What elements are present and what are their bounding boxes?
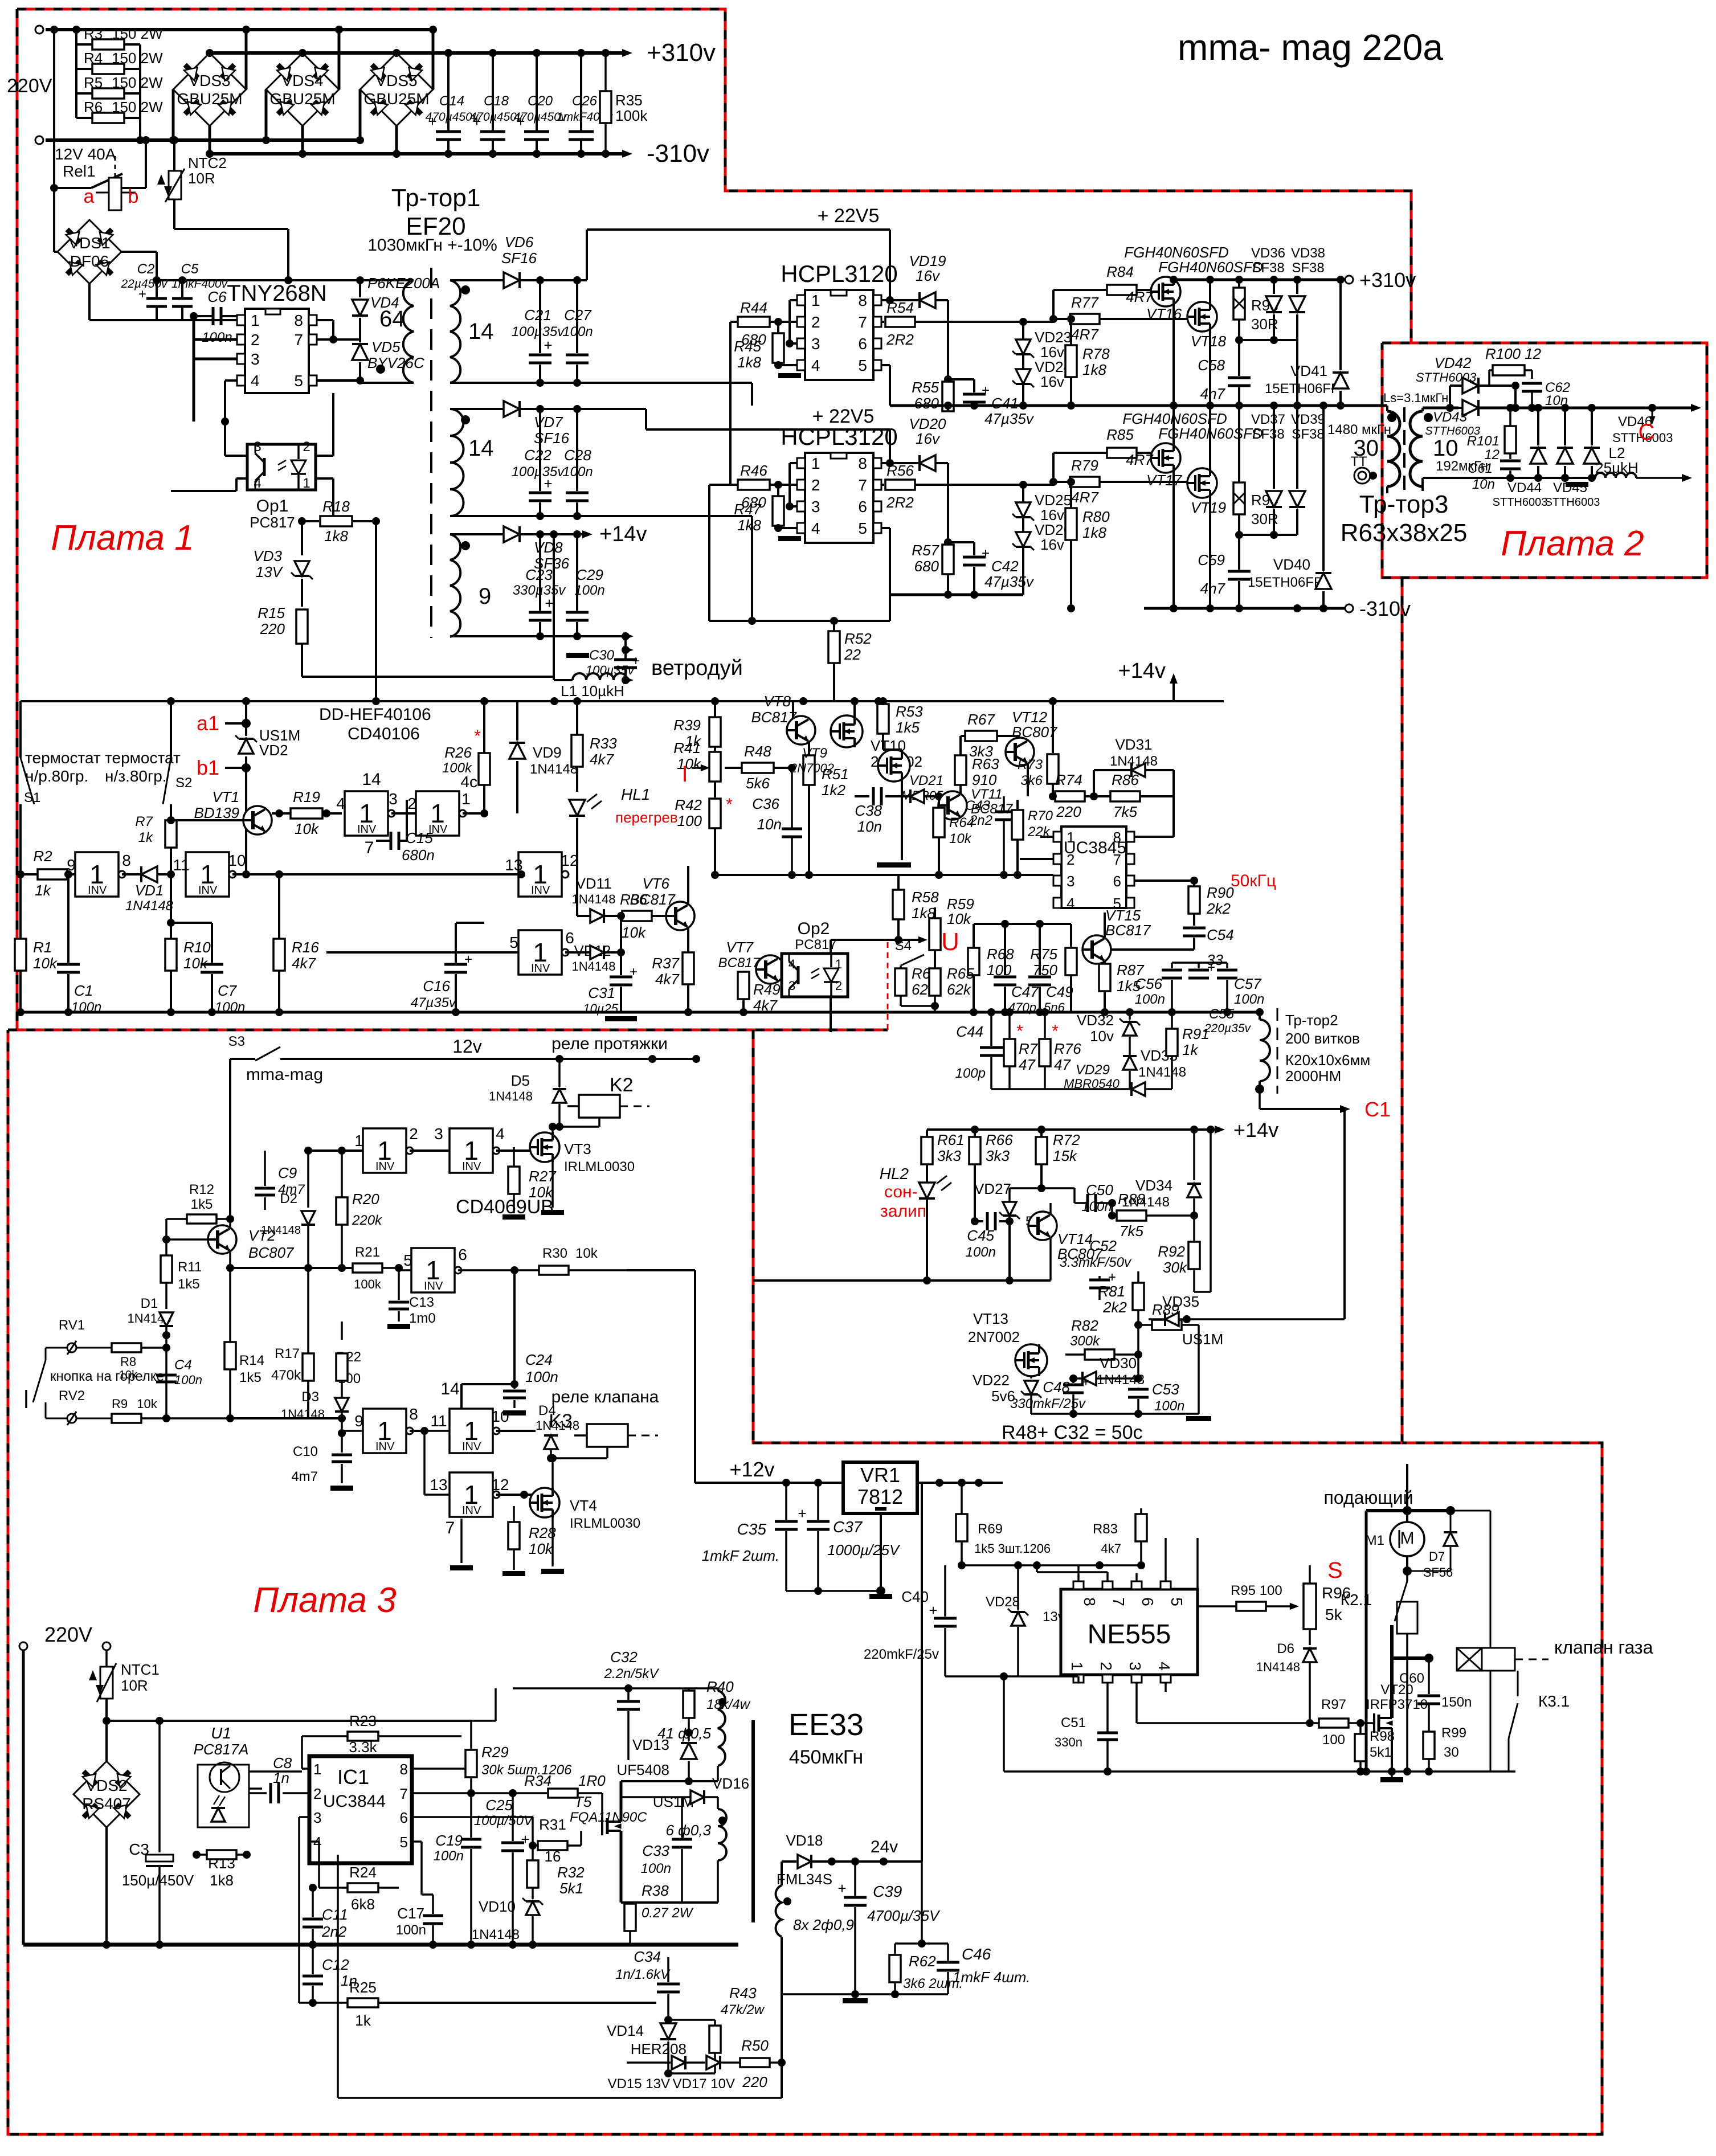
- potentiometer R41 10k current: [709, 752, 721, 782]
- svg-text:R25: R25: [349, 1979, 377, 1996]
- svg-text:C36: C36: [752, 795, 779, 812]
- svg-text:R8: R8: [120, 1355, 136, 1369]
- svg-text:15k: 15k: [1053, 1147, 1078, 1164]
- svg-text:15ETH06FP: 15ETH06FP: [1248, 575, 1323, 590]
- resistor R1 10k: [19, 872, 22, 939]
- wire 12v feed column: [627, 1269, 695, 1271]
- arrow -310v: [622, 150, 632, 158]
- wire NTC2 bottom to DC: [173, 199, 175, 229]
- svg-text:VD3: VD3: [253, 547, 282, 564]
- capacitor C16 47µ35v: [455, 923, 457, 963]
- terminal 220V bottom: [35, 136, 43, 144]
- resistor R10 10k: [170, 874, 172, 939]
- svg-text:4: 4: [811, 357, 820, 374]
- wire R85 from pin7 node lower: [1052, 453, 1055, 482]
- wire VD14 R43 bottom: [668, 2072, 715, 2075]
- wire feedback bottom: [338, 2097, 782, 2099]
- svg-text:R90: R90: [1207, 884, 1234, 901]
- svg-text:680: 680: [914, 395, 939, 412]
- wire ch2 bottom rail: [890, 594, 1023, 596]
- svg-text:VD27: VD27: [974, 1180, 1011, 1197]
- svg-text:VD41: VD41: [1290, 362, 1327, 379]
- svg-text:7812: 7812: [857, 1485, 903, 1508]
- wire Op2 out up: [830, 940, 832, 954]
- wire R41 wiper to R48: [710, 767, 725, 768]
- pin 5 NE555 top: [1161, 1581, 1171, 1589]
- svg-text:R34: R34: [524, 1772, 551, 1789]
- svg-text:R73: R73: [1018, 757, 1043, 772]
- svg-text:1: 1: [835, 957, 842, 971]
- inverter gate 9-8: [75, 852, 125, 897]
- resistor R79 4R7: [1053, 481, 1070, 483]
- svg-text:R29: R29: [481, 1744, 509, 1761]
- wire +310 rail: [210, 51, 627, 55]
- wire aux gnd bus: [23, 1943, 738, 1947]
- svg-text:VD16: VD16: [712, 1775, 749, 1792]
- wire NE555 pin4: [1165, 1683, 1167, 1692]
- pin 6 NE555 top: [1131, 1581, 1142, 1589]
- svg-text:K2: K2: [610, 1074, 634, 1096]
- inverter INV11: [450, 1472, 500, 1517]
- svg-text:10v: 10v: [1090, 1028, 1114, 1045]
- resistor R44 680: [730, 321, 738, 323]
- resistor R77 4R7: [1053, 318, 1070, 320]
- svg-text:+: +: [929, 1602, 937, 1619]
- svg-text:3: 3: [434, 1125, 443, 1143]
- resistor R88 7k5: [1117, 1210, 1146, 1221]
- svg-text:+: +: [1207, 960, 1215, 975]
- board border Plata 2 box: [1382, 343, 1707, 578]
- pin 2/7 HCPL U-upper: [797, 317, 805, 327]
- svg-text:+: +: [837, 1880, 846, 1897]
- svg-text:1: 1: [811, 292, 820, 309]
- transformer core Tr-tor3: [1403, 407, 1406, 490]
- relay Rel1 coil box: [109, 178, 121, 210]
- svg-text:+: +: [428, 113, 436, 130]
- wire secondary top to VD16: [704, 1796, 718, 1798]
- resistor R73 3k6: [1052, 701, 1054, 753]
- svg-text:INV: INV: [531, 884, 550, 897]
- svg-text:BD139: BD139: [194, 804, 240, 821]
- wire TNY pin7 right: [317, 338, 360, 341]
- wire pin5 U-lower: [881, 527, 890, 529]
- wire VT15 collector: [1104, 913, 1106, 938]
- svg-text:VDS5: VDS5: [375, 72, 417, 89]
- svg-text:R43: R43: [729, 1985, 757, 2002]
- svg-text:8: 8: [400, 1761, 408, 1778]
- svg-text:4n7: 4n7: [1200, 385, 1226, 402]
- svg-text:R17: R17: [275, 1346, 300, 1361]
- svg-text:C12: C12: [322, 1956, 349, 1973]
- wire pin5 U-upper: [881, 364, 890, 366]
- svg-text:VD37: VD37: [1251, 412, 1285, 427]
- svg-text:C2: C2: [137, 261, 155, 277]
- wire logic bottom bus: [21, 1011, 1260, 1014]
- svg-text:NTC1: NTC1: [121, 1661, 160, 1678]
- wire VT2 base left: [165, 1219, 167, 1239]
- resistor R42 100: [709, 799, 721, 828]
- capacitor C47 470p: [1004, 924, 1006, 975]
- arrow +14v aux: [582, 530, 593, 538]
- svg-text:RS407: RS407: [82, 1795, 131, 1813]
- diode VD7 SF16: [450, 408, 504, 410]
- wire +310 collector rail: [1174, 279, 1345, 281]
- svg-text:D2: D2: [280, 1191, 297, 1206]
- wire VT18 emitter down: [1209, 330, 1211, 406]
- wire R50 chain left: [626, 2063, 627, 2073]
- resistor R19 10k: [272, 812, 291, 815]
- zener VD25 16v: [1012, 502, 1034, 521]
- svg-text:14: 14: [468, 319, 494, 344]
- svg-text:VT13: VT13: [973, 1310, 1008, 1327]
- svg-text:330mkF/25v: 330mkF/25v: [1010, 1396, 1086, 1412]
- wire R8 node down: [165, 1335, 167, 1418]
- svg-text:7: 7: [294, 331, 303, 349]
- svg-text:6: 6: [400, 1809, 408, 1826]
- svg-text:R10: R10: [183, 939, 211, 956]
- bridge VDS4 GBU25M: [266, 53, 339, 126]
- inverter gate 13-12: [518, 852, 569, 897]
- svg-text:1k: 1k: [355, 2012, 371, 2029]
- wire VT2 emitter collector: [229, 1219, 231, 1228]
- IC IC1 UC3844: [309, 1756, 412, 1863]
- svg-text:150 2W: 150 2W: [112, 25, 163, 42]
- svg-text:150µ/450V: 150µ/450V: [122, 1872, 194, 1889]
- wire 12v to VR1 bus: [695, 1482, 843, 1484]
- svg-text:-310v: -310v: [1359, 597, 1411, 620]
- svg-text:7: 7: [365, 838, 374, 857]
- node AC top at resistor bank: [72, 26, 80, 34]
- svg-text:R69: R69: [978, 1521, 1003, 1537]
- svg-text:C53: C53: [1152, 1381, 1179, 1398]
- svg-text:24v: 24v: [871, 1838, 898, 1856]
- svg-text:Тр-тор2: Тр-тор2: [1285, 1012, 1338, 1029]
- wire NE555 pin1 gnd: [1078, 1676, 1079, 1683]
- zener VD26 16v: [1012, 532, 1034, 550]
- pin 3/6 HCPL U-upper: [797, 338, 805, 349]
- resistor R54 2R2: [881, 321, 884, 323]
- wire ch1 return rail: [450, 382, 752, 384]
- svg-text:R63x38x25: R63x38x25: [1341, 519, 1468, 547]
- svg-text:1: 1: [1068, 1662, 1086, 1671]
- transformer Tr-tor3 secondary: [1410, 411, 1423, 486]
- wire resistor bank left rail: [75, 30, 77, 118]
- svg-text:C54: C54: [1207, 926, 1234, 943]
- wire 24v riser to VR1: [921, 1513, 922, 1862]
- svg-text:4700µ/35V: 4700µ/35V: [867, 1907, 941, 1924]
- svg-text:5: 5: [294, 372, 303, 390]
- board border bottom box: [8, 1030, 1602, 2134]
- wire Op1 pin1 down: [316, 477, 333, 480]
- svg-text:1mkF 2шт.: 1mkF 2шт.: [702, 1547, 779, 1564]
- svg-text:C9: C9: [278, 1164, 297, 1181]
- svg-text:R83: R83: [1093, 1521, 1118, 1537]
- transformer EE33 core bar: [751, 1720, 755, 1922]
- resistor R48 5k6: [725, 767, 742, 769]
- svg-text:12: 12: [1484, 447, 1500, 463]
- wire C8 to pin1: [249, 1770, 302, 1773]
- wire pin7 right: [412, 1792, 547, 1794]
- svg-text:7: 7: [446, 1519, 455, 1537]
- svg-text:15ETH06FP: 15ETH06FP: [1265, 381, 1340, 396]
- diode VD45 STTH6003: [1564, 408, 1566, 445]
- svg-text:220µ35v: 220µ35v: [1204, 1022, 1251, 1035]
- svg-text:C30: C30: [589, 648, 615, 663]
- svg-text:100n: 100n: [525, 1368, 558, 1385]
- wire aux rail to C32 rail: [471, 1720, 513, 1721]
- svg-text:VDS4: VDS4: [281, 72, 323, 89]
- wire INV10-INV11 input: [423, 1431, 426, 1495]
- wire VT9 drain to R52 node: [853, 701, 856, 715]
- svg-text:1N4148: 1N4148: [1256, 1660, 1300, 1674]
- svg-text:+12v: +12v: [729, 1458, 774, 1481]
- svg-text:R44: R44: [740, 299, 767, 316]
- resistor R3 150 2W: [92, 39, 124, 50]
- svg-text:кнопка на горелке: кнопка на горелке: [50, 1369, 164, 1384]
- svg-text:R66: R66: [986, 1131, 1013, 1148]
- wire button rail join: [166, 1417, 230, 1419]
- current transformer marker: [1354, 468, 1370, 484]
- svg-text:100p: 100p: [955, 1066, 986, 1081]
- svg-text:+: +: [464, 952, 472, 967]
- wire +14 tap down: [553, 534, 555, 680]
- resistor R65 62k: [929, 968, 941, 996]
- wire 24v node to R62: [921, 1862, 923, 1944]
- resistor R46 680: [730, 484, 738, 486]
- resistor R16 4k7: [279, 813, 280, 939]
- svg-text:VT7: VT7: [726, 939, 754, 956]
- ground HCPL U-upper: [789, 343, 790, 375]
- svg-text:SF38: SF38: [1252, 260, 1284, 276]
- svg-text:12: 12: [561, 852, 578, 869]
- svg-text:13V: 13V: [256, 563, 284, 580]
- pin 3 NE555 bottom: [1131, 1675, 1142, 1683]
- wire R81 R82 node: [1137, 1325, 1139, 1378]
- svg-text:1: 1: [461, 790, 471, 808]
- pin 1/8 UC3845: [1053, 832, 1061, 842]
- wire pin1 tie U-upper: [790, 299, 797, 301]
- svg-text:R99: R99: [1441, 1725, 1466, 1741]
- svg-text:C17: C17: [397, 1905, 424, 1922]
- zener VD24 16v: [1012, 369, 1034, 387]
- arrow +310v: [622, 49, 632, 57]
- resistor R52 22: [833, 621, 835, 631]
- svg-text:*: *: [474, 727, 481, 746]
- svg-text:R30: R30: [542, 1246, 567, 1261]
- svg-text:NE555: NE555: [1088, 1619, 1171, 1650]
- svg-text:R81: R81: [1098, 1283, 1125, 1300]
- svg-text:R53: R53: [896, 703, 923, 720]
- svg-text:ветродуй: ветродуй: [651, 656, 743, 680]
- svg-text:3: 3: [254, 439, 261, 455]
- svg-text:HCPL3120: HCPL3120: [781, 423, 897, 450]
- svg-text:перегрев: перегрев: [615, 809, 678, 826]
- svg-text:1k8: 1k8: [324, 527, 348, 545]
- svg-text:VD22: VD22: [973, 1372, 1010, 1389]
- svg-text:R7: R7: [135, 814, 153, 829]
- wire AC bus bottom: [46, 138, 361, 142]
- wire INV2 input node: [308, 1149, 363, 1152]
- svg-text:STTH6003: STTH6003: [1545, 496, 1600, 509]
- pin 4/5 HCPL U-lower: [797, 523, 805, 533]
- svg-text:3: 3: [811, 498, 820, 516]
- svg-text:D1: D1: [141, 1296, 158, 1311]
- svg-text:R12: R12: [189, 1182, 214, 1197]
- svg-text:R100 12: R100 12: [1485, 345, 1542, 362]
- svg-text:I: I: [681, 762, 688, 787]
- svg-text:4k7: 4k7: [1101, 1541, 1121, 1556]
- wire S1 rail: [19, 701, 22, 758]
- wire VDS3 AC top: [245, 30, 248, 89]
- svg-text:300k: 300k: [1070, 1333, 1101, 1349]
- svg-text:150 2W: 150 2W: [112, 50, 163, 67]
- svg-text:50кГц: 50кГц: [1231, 872, 1276, 890]
- resistor R35 100k: [604, 53, 607, 92]
- svg-text:10k: 10k: [622, 924, 647, 941]
- svg-text:реле клапана: реле клапана: [551, 1388, 659, 1406]
- wire R96 top from supply: [1141, 1565, 1310, 1566]
- wire R60 R65 join: [901, 1005, 935, 1007]
- svg-text:R61: R61: [937, 1131, 965, 1148]
- svg-text:*: *: [1016, 1022, 1023, 1041]
- wire output rail mid: [1144, 404, 1387, 407]
- svg-text:8: 8: [122, 852, 131, 869]
- svg-text:D6: D6: [1277, 1641, 1294, 1656]
- wire R84 from pin7 node: [1052, 290, 1055, 319]
- svg-text:1N4148: 1N4148: [489, 1089, 533, 1103]
- svg-text:D5: D5: [511, 1072, 530, 1089]
- inductor L1 10µkH: [573, 673, 627, 680]
- svg-text:R18: R18: [322, 498, 350, 515]
- svg-text:10: 10: [228, 852, 246, 869]
- wire left terminal to relay: [53, 30, 55, 188]
- capacitor C49 5n6: [1039, 924, 1041, 975]
- svg-text:R19: R19: [293, 788, 320, 805]
- svg-text:0.27 2W: 0.27 2W: [642, 1905, 694, 1921]
- wire VT19 emitter down: [1209, 497, 1211, 608]
- svg-text:47: 47: [1019, 1056, 1036, 1073]
- svg-text:7: 7: [858, 476, 867, 494]
- wire INV8 out to VT3 gate: [496, 1149, 530, 1152]
- svg-text:220mkF/25v: 220mkF/25v: [864, 1647, 939, 1662]
- resistor R93 30R: [1238, 280, 1240, 288]
- svg-text:220: 220: [742, 2073, 767, 2090]
- svg-text:C21: C21: [524, 306, 551, 324]
- svg-text:1: 1: [303, 476, 310, 491]
- svg-text:1: 1: [1067, 829, 1074, 846]
- wire VR1 out: [917, 1482, 1003, 1484]
- svg-text:7k5: 7k5: [1113, 803, 1137, 820]
- svg-text:Rel1: Rel1: [63, 162, 96, 180]
- svg-text:100n: 100n: [966, 1245, 996, 1260]
- svg-text:VD8: VD8: [534, 539, 563, 556]
- inverter INV6: [411, 1248, 461, 1292]
- wire anti-stick bottom rail: [1031, 1413, 1199, 1415]
- wire VT6 collector: [687, 866, 689, 905]
- svg-text:4R7: 4R7: [1071, 326, 1099, 343]
- svg-text:16v: 16v: [916, 267, 941, 284]
- svg-text:1: 1: [811, 455, 820, 472]
- resistor R86 7k5: [1110, 791, 1140, 801]
- svg-text:HL1: HL1: [621, 786, 650, 803]
- svg-text:SF38: SF38: [1292, 260, 1324, 276]
- wire TNY pin8 right: [317, 319, 333, 321]
- svg-text:PC817A: PC817A: [194, 1741, 249, 1758]
- wire chain to VD15: [656, 2073, 668, 2074]
- svg-text:TNY268N: TNY268N: [227, 281, 327, 306]
- svg-text:VD39: VD39: [1291, 412, 1325, 427]
- wire motor right branch: [1451, 1510, 1490, 1512]
- wire INV4 out: [410, 1430, 424, 1432]
- svg-text:C7: C7: [218, 982, 238, 999]
- svg-text:1: 1: [354, 1132, 363, 1149]
- svg-text:8: 8: [858, 455, 867, 472]
- pin 4 NE555 bottom: [1161, 1675, 1171, 1683]
- transistor VT16: [1151, 277, 1180, 306]
- wire ch2 return rail: [450, 515, 752, 517]
- svg-text:R68: R68: [987, 946, 1014, 963]
- wire logic top bus +14v: [167, 697, 175, 705]
- wire R39 R41 column: [714, 701, 716, 720]
- svg-text:2: 2: [251, 331, 260, 349]
- diode VD6 SF16: [450, 279, 504, 281]
- board border mid-right vertical: [1401, 578, 1404, 1443]
- pin 3/6 HCPL U-lower: [797, 501, 805, 512]
- wire -310 emitter rail: [1144, 607, 1345, 610]
- svg-text:C1: C1: [1364, 1098, 1391, 1121]
- svg-text:10k: 10k: [529, 1540, 554, 1557]
- svg-text:S3: S3: [228, 1034, 245, 1049]
- wire VT3 drain: [551, 1127, 554, 1132]
- wire VT4 gate: [530, 1495, 536, 1503]
- svg-text:3: 3: [389, 790, 398, 808]
- wire sub bus riser: [926, 1130, 928, 1140]
- svg-text:+: +: [798, 1505, 806, 1522]
- svg-text:C10: C10: [293, 1444, 318, 1459]
- svg-text:30: 30: [1354, 436, 1379, 461]
- svg-text:R77: R77: [1071, 294, 1099, 311]
- svg-text:R56: R56: [886, 462, 914, 479]
- svg-text:+: +: [472, 113, 481, 130]
- svg-text:2: 2: [1097, 1662, 1115, 1671]
- svg-text:C33: C33: [642, 1842, 669, 1859]
- svg-text:4R7: 4R7: [1126, 451, 1154, 468]
- wire snubber junction upper: [1239, 339, 1297, 341]
- svg-text:R3: R3: [84, 25, 103, 42]
- svg-text:L1 10µkH: L1 10µkH: [561, 682, 624, 699]
- svg-text:R39: R39: [673, 717, 701, 734]
- svg-text:1N4148: 1N4148: [571, 959, 615, 973]
- svg-text:1k: 1k: [1182, 1041, 1199, 1058]
- winding dot primary: [376, 365, 385, 374]
- terminal 220V top: [35, 26, 43, 34]
- svg-text:8: 8: [294, 312, 303, 329]
- svg-text:1: 1: [251, 312, 260, 329]
- svg-text:R20: R20: [352, 1190, 379, 1208]
- wire output bottom rail: [1423, 477, 1590, 479]
- svg-text:IRLML0030: IRLML0030: [570, 1516, 640, 1531]
- svg-text:10R: 10R: [121, 1677, 148, 1694]
- svg-text:4k7: 4k7: [292, 955, 316, 972]
- wire TNY pin3 left: [194, 358, 237, 361]
- svg-text:R57: R57: [912, 542, 939, 559]
- svg-text:R15: R15: [258, 604, 285, 621]
- pin 8 NE555 top: [1073, 1581, 1084, 1589]
- svg-text:5: 5: [400, 1834, 408, 1851]
- wire ch2 gnd rail to left: [709, 620, 890, 622]
- wire gate R85: [1053, 452, 1108, 454]
- svg-text:VD9: VD9: [533, 744, 562, 761]
